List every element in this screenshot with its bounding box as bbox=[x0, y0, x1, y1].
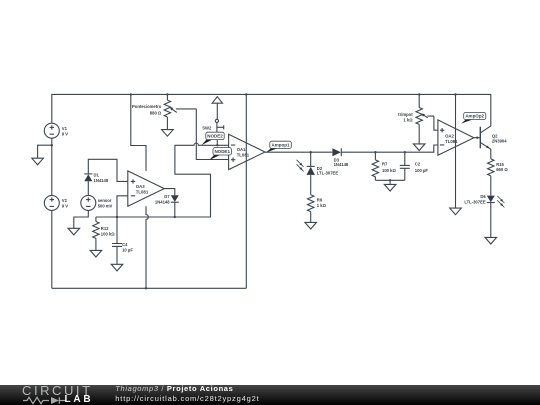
wire R7 C2 bottom link bbox=[375, 180, 404, 184]
LED D2 top bar bbox=[307, 165, 315, 167]
wire V2 to bottom rail bbox=[51, 210, 53, 288]
wire D2 stub from rail bbox=[310, 152, 312, 166]
wire SW2 bottom to minus net bbox=[216, 140, 218, 146]
ground near V1 bbox=[32, 158, 44, 165]
ground below R6 bbox=[305, 222, 317, 229]
junction dots bbox=[130, 93, 132, 95]
flag NODE1 bbox=[210, 148, 232, 160]
ground below R7 C2 bbox=[384, 184, 396, 191]
wire OA3 VCC path bbox=[131, 94, 146, 170]
wire OA3 output to D7 bbox=[164, 189, 175, 196]
switch SW2 bbox=[215, 119, 218, 122]
wire sensor top to D1 bbox=[87, 181, 89, 195]
footer bar bbox=[0, 385, 540, 405]
resistor R12 bbox=[93, 222, 99, 239]
wire OA1 minus net with hop, to signal rail bbox=[96, 143, 229, 217]
LED D6 bbox=[487, 196, 495, 203]
wire V1 ground tap bbox=[38, 145, 52, 158]
D6 arrow heads bbox=[500, 199, 503, 202]
wire trimpot wiper to OA2 plus input bbox=[423, 115, 438, 130]
wire R6 to ground bbox=[310, 212, 312, 223]
wire OA2 power vertical bbox=[455, 94, 457, 208]
LED D2 bbox=[307, 167, 315, 175]
wire pot wiper to OA1 plus input bbox=[172, 109, 229, 160]
LED D2 light arrows bbox=[297, 160, 304, 172]
diode D3 bbox=[332, 148, 341, 156]
resistor R7 bbox=[372, 160, 378, 177]
diode D7 bbox=[171, 195, 179, 202]
Q2 emitter arrowhead bbox=[486, 146, 489, 149]
wire OA1 power vertical bbox=[245, 94, 247, 288]
ground below R12 bbox=[90, 250, 102, 257]
wire OA3 VEE with hop over rail bbox=[146, 206, 148, 288]
voltage source sensor bbox=[81, 195, 96, 210]
op-amp OA2 bbox=[438, 120, 474, 155]
wire OA1 output rail bbox=[265, 151, 332, 153]
wire D7 cathode to rail bbox=[174, 202, 176, 217]
diode D1 bbox=[84, 174, 92, 181]
LED D6 light arrows bbox=[497, 196, 504, 208]
resistor R6 bbox=[308, 195, 314, 212]
diode D7 cathode bar bbox=[171, 201, 179, 203]
wire V1 to V2 bbox=[51, 138, 53, 195]
diode D1 cathode bar bbox=[84, 173, 92, 175]
wire R15 to D6 bbox=[490, 176, 492, 196]
flag Ampop1 bbox=[266, 141, 292, 152]
capacitor C4 bbox=[112, 244, 122, 247]
footer title bbox=[115, 385, 233, 393]
wire D6 to ground bbox=[490, 203, 492, 238]
power flag above SW2 bbox=[212, 97, 222, 104]
ground below OA2 power bbox=[450, 208, 462, 215]
wire C2 stubs bbox=[404, 152, 406, 180]
wire D1 to OA3 plus input bbox=[88, 159, 128, 181]
op-amp OA1 bbox=[229, 134, 265, 169]
D2 arrow heads bbox=[299, 163, 302, 166]
wire pot bottom stub bbox=[166, 117, 168, 130]
ground below D6 bbox=[485, 237, 497, 244]
footer logo CIRCUIT bbox=[22, 385, 93, 396]
wire trimpot stubs bbox=[418, 94, 420, 143]
wire C4 bottom stub bbox=[116, 246, 118, 264]
diode D3 cathode bar bbox=[340, 148, 342, 156]
voltage source V2 bbox=[44, 195, 59, 210]
wire OA3 minus input to C4 bbox=[117, 196, 128, 244]
footer url bbox=[115, 395, 259, 403]
potentiometer Ponteciometro 880 bbox=[164, 100, 170, 117]
trimpot wiper arrowhead bbox=[421, 114, 425, 117]
LED D6 cathode bar bbox=[487, 202, 495, 204]
wire SW2 top stub bbox=[216, 103, 218, 119]
wire R12 stubs bbox=[95, 217, 97, 250]
wire pot top stub bbox=[166, 94, 168, 100]
ground below sensor bbox=[68, 228, 80, 235]
capacitor C2 bbox=[400, 165, 410, 168]
flag NODE2 bbox=[202, 132, 225, 145]
wire R7 stubs bbox=[374, 152, 376, 180]
trimpot 1k bbox=[416, 108, 422, 125]
voltage source V1 bbox=[44, 123, 59, 138]
wire bottom negative rail bbox=[52, 287, 247, 289]
wire sensor bottom to ground bbox=[74, 211, 89, 229]
wire D2 to R6 bbox=[310, 175, 312, 195]
footer logo LAB bbox=[65, 395, 94, 405]
pot wiper arrowhead bbox=[170, 108, 174, 111]
ground below trimpot bbox=[413, 144, 425, 151]
transistor Q2 base bar bbox=[479, 127, 481, 149]
wire OA2 output to Q2 base bbox=[474, 137, 480, 139]
wire D3 cathode to OA2 minus input bbox=[341, 145, 438, 152]
wire top rail with Q2 collector drop bbox=[52, 94, 491, 132]
op-amp OA3 bbox=[128, 171, 164, 206]
flag AmpOp2 bbox=[461, 113, 486, 124]
ground below C4 bbox=[111, 264, 123, 271]
wire Q2 emitter to R15 bbox=[480, 142, 491, 159]
ground below potentiometer bbox=[162, 130, 174, 137]
resistor R15 bbox=[488, 159, 494, 176]
